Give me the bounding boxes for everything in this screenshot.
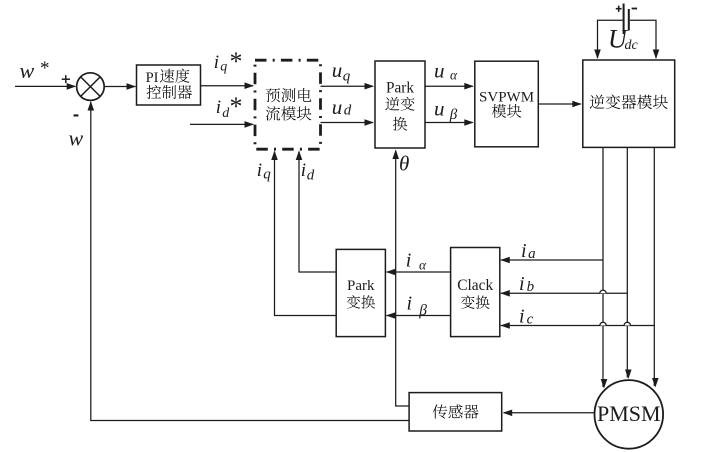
svg-text:q: q <box>343 68 351 84</box>
signal label id (feedback) <box>301 160 315 183</box>
wire u_alpha to SVPWM <box>425 83 474 90</box>
battery DC source plates <box>624 4 629 35</box>
signal label ib <box>519 273 535 295</box>
signal label iq* (q-axis current reference) <box>214 47 243 76</box>
svg-text:i: i <box>519 273 525 295</box>
svg-text:d: d <box>344 103 352 119</box>
wire speed feedback from sensor to summing junction <box>88 101 410 421</box>
svg-text:q: q <box>263 167 271 183</box>
svg-text:α: α <box>450 68 458 83</box>
svg-text:dc: dc <box>625 38 639 53</box>
signal label w* (speed reference) <box>20 58 50 83</box>
wire phase a from inverter to PMSM <box>601 147 608 388</box>
wire u_beta to SVPWM <box>425 119 474 126</box>
wire battery positive to inverter <box>594 20 622 59</box>
signal label theta <box>399 151 409 175</box>
wire ic tap to Clark transform (hops over phases a and b) <box>500 322 654 329</box>
svg-text:*: * <box>40 58 50 79</box>
wire iq from Park transform up into predictive current module <box>271 151 336 316</box>
signal label i_alpha <box>406 250 427 273</box>
signal label iq (feedback) <box>257 160 272 182</box>
svg-text:Clack: Clack <box>457 277 493 294</box>
svg-text:θ: θ <box>399 151 409 175</box>
svg-text:PMSM: PMSM <box>597 401 661 426</box>
wire ia tap to Clark transform <box>500 257 603 264</box>
wire ib tap to Clark transform (hop over phase a) <box>500 290 627 297</box>
svg-text:*: * <box>230 47 243 76</box>
wire uq to Park inverse transform <box>321 83 375 90</box>
svg-text:α: α <box>419 257 427 272</box>
wire id from Park transform up into predictive current module <box>296 151 337 273</box>
wire i_beta Clark to Park transform <box>386 312 451 319</box>
svg-text:i: i <box>216 97 221 118</box>
svg-text:i: i <box>519 305 525 327</box>
block Park transform <box>336 249 385 336</box>
block SVPWM module <box>475 61 539 147</box>
svg-text:i: i <box>407 292 413 314</box>
plus label of DC source <box>616 6 622 12</box>
wire speed reference into summing junction <box>15 83 76 90</box>
signal label ud <box>332 95 352 119</box>
block Park inverse transform <box>375 61 425 148</box>
wire theta from sensor up to Park inverse transform <box>392 150 409 407</box>
signal label w (feedback speed) <box>69 126 84 151</box>
svg-text:SVPWM: SVPWM <box>479 89 534 105</box>
block PMSM motor <box>595 380 664 449</box>
signal label id* (d-axis current reference) <box>216 92 243 121</box>
signal label u_alpha <box>434 58 458 82</box>
minus label of DC source <box>632 8 638 10</box>
svg-text:i: i <box>257 160 262 181</box>
wire summing junction to PI controller <box>104 83 136 90</box>
svg-text:w: w <box>69 126 84 151</box>
wire id* reference into predictive current module <box>190 121 254 128</box>
svg-text:PI: PI <box>146 70 159 86</box>
svg-text:i: i <box>214 52 219 73</box>
signal label ic <box>519 305 534 327</box>
svg-text:Park: Park <box>386 79 414 96</box>
block Clark transform <box>451 248 500 337</box>
svg-text:w: w <box>20 58 35 83</box>
block PI speed controller <box>137 65 201 105</box>
summing junction <box>77 73 105 101</box>
block sensor <box>409 393 502 431</box>
wire SVPWM to inverter module <box>538 101 582 108</box>
svg-text:u: u <box>332 95 343 119</box>
svg-text:u: u <box>434 58 445 82</box>
svg-text:i: i <box>406 250 412 272</box>
signal label i_beta <box>407 292 428 319</box>
svg-text:b: b <box>527 279 535 295</box>
wire PI controller to predictive current module <box>201 82 255 89</box>
svg-text:u: u <box>332 58 343 82</box>
svg-text:β: β <box>418 302 427 319</box>
wire phase b from inverter to PMSM <box>625 147 632 379</box>
minus sign below summing junction <box>74 114 79 116</box>
wire ud to Park inverse transform <box>321 119 375 126</box>
wire i_alpha Clark to Park transform <box>386 269 451 276</box>
signal label u_beta <box>434 97 458 123</box>
signal label uq <box>332 58 351 84</box>
wire phase c from inverter to PMSM <box>652 147 659 387</box>
svg-text:d: d <box>307 168 315 184</box>
plus sign at summing junction <box>62 75 70 83</box>
svg-text:Park: Park <box>347 278 375 294</box>
svg-text:*: * <box>230 92 243 121</box>
signal label ia <box>521 240 536 262</box>
block inverter module <box>583 60 675 147</box>
signal label Udc <box>608 25 639 54</box>
svg-text:i: i <box>521 240 527 262</box>
svg-text:u: u <box>434 97 445 121</box>
svg-text:β: β <box>449 107 458 123</box>
wire battery negative to inverter <box>630 20 660 59</box>
block predictive current module (dash-dot border) <box>255 60 321 149</box>
wire PMSM to sensor <box>503 410 595 417</box>
svg-text:i: i <box>301 160 306 181</box>
svg-text:q: q <box>220 59 227 74</box>
